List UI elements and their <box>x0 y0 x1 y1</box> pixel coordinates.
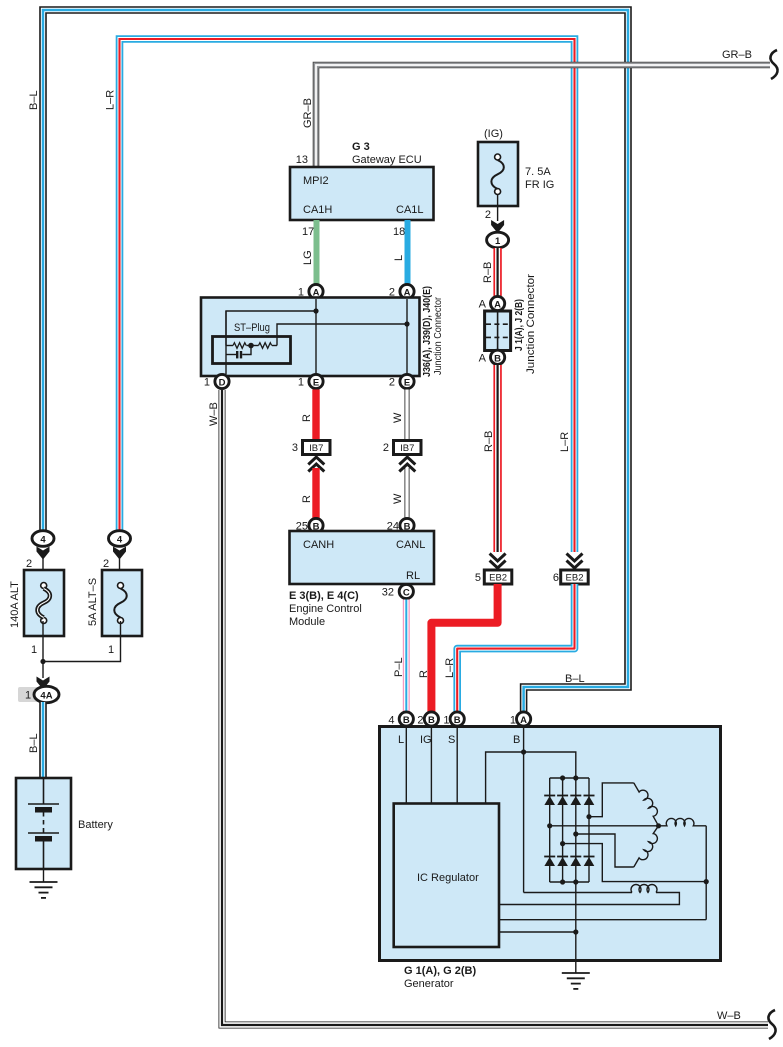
capacitor to left node <box>226 354 236 356</box>
node col3 to lower stator lead <box>573 831 578 836</box>
fuse 140A ALT symbol (heavy fusible link) <box>41 583 47 589</box>
svg-text:L–R: L–R <box>105 90 117 110</box>
wire L from CA1L to junction connector pin A2 <box>405 220 411 284</box>
ground wire vertical <box>575 882 577 973</box>
svg-text:B: B <box>428 715 435 726</box>
wire W from E2 to IB7 <box>405 390 410 442</box>
svg-text:E 3(B), E 4(C): E 3(B), E 4(C) <box>289 590 359 602</box>
svg-text:C: C <box>403 588 410 599</box>
svg-text:B: B <box>454 715 461 726</box>
Gateway ECU box G3 <box>290 167 434 220</box>
svg-text:R: R <box>418 670 430 678</box>
junction dot left column <box>40 659 45 664</box>
fuse FR IG box <box>478 142 518 206</box>
svg-text:1: 1 <box>25 690 31 702</box>
svg-text:4A: 4A <box>40 691 52 702</box>
wire battery to ground <box>43 869 45 882</box>
svg-text:17: 17 <box>302 226 314 238</box>
svg-text:A: A <box>479 299 487 311</box>
svg-text:B–L: B–L <box>28 733 40 753</box>
svg-text:CANL: CANL <box>396 539 425 551</box>
ground (battery) <box>30 882 58 898</box>
wire 5A pin1 down and left to junction node <box>43 621 121 662</box>
gray highlight band behind 4A <box>18 687 58 702</box>
wire B-L from 4A to battery <box>39 702 47 779</box>
junction dot on E2 vertical <box>404 321 409 326</box>
svg-text:A: A <box>479 352 487 364</box>
svg-text:B: B <box>513 734 520 746</box>
wire 140A pin1 down to junction <box>42 621 44 678</box>
svg-text:W–B: W–B <box>208 402 220 426</box>
stator winding lower (coil) <box>634 826 659 867</box>
svg-text:Engine Control: Engine Control <box>289 603 362 615</box>
wire W from IB7 to ECM pin 24 <box>405 468 410 518</box>
svg-text:4: 4 <box>40 535 46 546</box>
pin circle A2 <box>400 284 414 298</box>
wire L-R: left vertical, top run, down to EB2(6) <box>120 39 575 552</box>
arrow into fuse 5A <box>113 547 126 560</box>
svg-text:A: A <box>494 300 501 311</box>
stator mid rail from col1 to star point <box>547 823 552 828</box>
svg-text:1: 1 <box>443 715 449 727</box>
svg-text:J 1(A), J 2(B): J 1(A), J 2(B) <box>514 299 525 351</box>
svg-text:GR–B: GR–B <box>722 49 752 61</box>
svg-text:L: L <box>398 734 404 746</box>
svg-text:W: W <box>392 493 404 504</box>
svg-text:R: R <box>301 495 313 503</box>
junction connector J1/J2 box <box>485 311 511 351</box>
svg-text:IB7: IB7 <box>309 443 323 454</box>
resistor R left <box>233 343 246 349</box>
oval connector 4 (B-L into 140A ALT) <box>32 531 54 547</box>
oval connector 1 <box>487 232 509 248</box>
left node vertical down to pin D <box>225 311 227 374</box>
pin circle B (IG) <box>424 712 438 726</box>
svg-text:FR IG: FR IG <box>525 179 554 191</box>
svg-text:2: 2 <box>485 209 491 221</box>
svg-text:IC Regulator: IC Regulator <box>417 872 479 884</box>
center node dot <box>248 343 254 349</box>
resistor line across ST-plug <box>226 345 233 347</box>
oval connector 4 (L-R into 5A ALT-S) <box>109 531 131 547</box>
diode row 1 triangles <box>544 796 594 805</box>
svg-text:L–R: L–R <box>444 658 456 678</box>
svg-text:L–R: L–R <box>559 432 571 452</box>
internal wire A1-E1 <box>315 299 317 374</box>
svg-text:G 1(A), G 2(B): G 1(A), G 2(B) <box>404 965 476 977</box>
arrow into oval 1 <box>491 220 504 233</box>
svg-text:R–B: R–B <box>482 262 494 283</box>
wire W-B: from J36 pin D down and across bottom to off-page <box>222 390 768 1025</box>
svg-text:J36(A), J39(D), J40(E): J36(A), J39(D), J40(E) <box>422 286 433 377</box>
svg-text:GR–B: GR–B <box>302 98 314 128</box>
svg-text:5: 5 <box>475 572 481 584</box>
bridge column 2 <box>562 778 564 882</box>
right winding end down to junction <box>705 826 707 920</box>
IC Regulator box <box>394 804 499 948</box>
svg-text:6: 6 <box>553 572 559 584</box>
field winding line from B <box>524 892 632 894</box>
wire GR-B: from Gateway ECU pin 13 up and across to off-page right <box>316 65 770 167</box>
svg-text:EB2: EB2 <box>489 573 507 584</box>
star point dot <box>656 823 661 828</box>
wire L pin to IC regulator <box>405 727 407 804</box>
junction connector J36 box <box>201 298 420 377</box>
stator winding upper (coil) <box>634 783 659 826</box>
pin circle B (CANL) <box>400 518 414 532</box>
field winding coil <box>631 884 657 892</box>
fuse 140A ALT box <box>24 570 64 636</box>
svg-text:B: B <box>403 715 410 726</box>
chevron up IB7 left <box>308 457 324 472</box>
svg-text:Junction Connector: Junction Connector <box>525 274 537 374</box>
svg-text:1: 1 <box>298 377 304 389</box>
wire right down to IC regulator <box>499 919 706 921</box>
svg-text:Gateway ECU: Gateway ECU <box>352 154 422 166</box>
svg-text:LG: LG <box>302 250 314 265</box>
wire LG from CA1H to junction connector pin A1 <box>314 220 320 284</box>
pin circle B (S) <box>450 712 464 726</box>
wire into 140A fuse <box>42 556 44 585</box>
bridge column 1 <box>549 778 551 882</box>
internal wire A2-E2 <box>406 299 408 374</box>
generator box G1(A) G2(B) <box>380 727 721 961</box>
wire R from E1 to IB7 <box>312 390 319 442</box>
svg-text:2: 2 <box>103 558 109 570</box>
diode row 1 bars <box>544 795 594 797</box>
junction dot on E1 vertical <box>313 308 318 313</box>
wire B pin down to field line <box>523 727 525 893</box>
svg-text:Generator: Generator <box>404 978 454 990</box>
svg-text:Module: Module <box>289 616 325 628</box>
svg-text:(IG): (IG) <box>484 128 503 140</box>
svg-text:IB7: IB7 <box>400 443 414 454</box>
junction dot on B wire <box>521 749 526 754</box>
svg-text:RL: RL <box>406 570 420 582</box>
wire R from IB7 to ECM pin 25 <box>312 468 319 518</box>
wire R-B from oval 1 to J1 pin A <box>493 248 501 296</box>
svg-text:2: 2 <box>383 442 389 454</box>
svg-text:Battery: Battery <box>78 819 113 831</box>
chevron down into EB2(5) <box>490 554 506 569</box>
svg-text:R: R <box>301 414 313 422</box>
svg-text:D: D <box>219 378 226 389</box>
bridge column 3 <box>575 778 577 882</box>
junction dot on ground wire <box>573 929 578 934</box>
connector IB7 (CANL) <box>394 441 422 455</box>
bridge column 4 <box>588 778 590 882</box>
svg-text:W: W <box>392 412 404 423</box>
fuse FR IG symbol <box>495 154 501 160</box>
svg-text:1: 1 <box>510 715 516 727</box>
svg-text:4: 4 <box>117 535 123 546</box>
fuse 5A ALT-S symbol <box>118 583 124 589</box>
wire R-B from J2 pin B down to EB2(5) <box>493 365 501 552</box>
wire IG pin to IC regulator <box>430 727 432 804</box>
stator winding right (horizontal coil) <box>659 818 707 825</box>
chevron up IB7 right <box>399 457 415 472</box>
svg-text:ST–Plug: ST–Plug <box>234 322 270 334</box>
svg-text:R–B: R–B <box>483 431 495 452</box>
svg-text:1: 1 <box>108 644 114 656</box>
pin circle E1 <box>309 374 323 388</box>
svg-text:4: 4 <box>388 715 394 727</box>
svg-text:7. 5A: 7. 5A <box>525 166 551 178</box>
field coil to IC regulator <box>499 893 679 905</box>
IC regulator bottom line to ground wire <box>499 931 576 933</box>
svg-text:1: 1 <box>204 377 210 389</box>
wire into 5A fuse <box>119 556 121 585</box>
svg-text:EB2: EB2 <box>566 573 584 584</box>
svg-text:5A ALT–S: 5A ALT–S <box>87 578 99 626</box>
pin circle A (J1) <box>491 296 505 310</box>
svg-text:2: 2 <box>389 377 395 389</box>
wire P-L from ECM pin C to generator L pin <box>403 600 410 714</box>
svg-text:G 3: G 3 <box>352 141 370 153</box>
pin circle B (CANH) <box>309 518 323 532</box>
resistor R right <box>259 343 272 349</box>
wire B branch to bridge and IC regulator <box>486 752 576 804</box>
svg-text:32: 32 <box>382 587 394 599</box>
bridge top rail <box>550 777 589 779</box>
ground (generator) <box>562 973 590 989</box>
ECM box <box>290 531 435 584</box>
off-page connector squiggle GR-B <box>770 50 777 79</box>
pin circle A1 <box>309 284 323 298</box>
pin circle D <box>215 374 229 388</box>
pin circle A (B) <box>517 712 531 726</box>
svg-text:P–L: P–L <box>393 657 405 677</box>
off-page connector squiggle W-B <box>768 1010 775 1039</box>
internal wire node to E1 vertical <box>226 311 316 346</box>
node col2 route to right <box>560 841 565 846</box>
svg-text:L: L <box>393 255 405 261</box>
pin circle B (J2) <box>491 350 505 364</box>
battery box <box>16 778 71 869</box>
svg-text:13: 13 <box>296 154 308 166</box>
oval connector 4A <box>34 686 59 702</box>
svg-text:1: 1 <box>495 236 501 247</box>
wire B-L main loop: left vertical, top run, right vertical down to generator pin A <box>43 10 628 713</box>
J1/J2 grid center line <box>497 311 499 351</box>
internal wire right node to E2 vertical <box>277 324 407 346</box>
svg-text:MPI2: MPI2 <box>303 175 329 187</box>
arrow into fuse 140A <box>37 547 50 560</box>
J1/J2 dashed rows <box>486 323 509 325</box>
fuse 5A ALT-S box <box>102 570 142 636</box>
svg-text:1: 1 <box>31 644 37 656</box>
bottom rail dots <box>560 879 565 884</box>
svg-text:Junction Connector: Junction Connector <box>433 296 444 375</box>
diode row 2 triangles <box>544 857 594 866</box>
wire fuse to pin 2 <box>497 194 499 221</box>
svg-text:E: E <box>313 378 319 389</box>
wire R thick from EB2(5) to generator IG pin <box>431 584 497 713</box>
chevron down into EB2(6) <box>567 554 583 569</box>
svg-text:2: 2 <box>26 558 32 570</box>
svg-text:E: E <box>404 378 410 389</box>
svg-text:W–B: W–B <box>717 1010 741 1022</box>
ST-Plug box <box>213 337 291 364</box>
pin circle B (L) <box>399 712 413 726</box>
svg-text:S: S <box>448 734 455 746</box>
battery symbol <box>28 778 59 869</box>
capacitor plates <box>240 351 242 358</box>
svg-text:B–L: B–L <box>28 90 40 110</box>
arrow into 4A connector <box>37 677 50 690</box>
connector EB2(6) <box>561 570 589 584</box>
wire L-R from EB2(6) to generator S pin <box>457 584 574 713</box>
pin circle C (RL) <box>399 584 413 598</box>
junction dot right <box>704 879 709 884</box>
svg-text:140A ALT: 140A ALT <box>9 581 21 628</box>
svg-text:CA1L: CA1L <box>396 204 424 216</box>
pin circle E2 <box>400 374 414 388</box>
top rail dots <box>560 775 565 780</box>
bridge bottom rail <box>550 881 589 883</box>
connector IB7 (CANH) <box>303 441 331 455</box>
node col4 to upper stator lead <box>586 814 591 819</box>
svg-text:2: 2 <box>417 715 423 727</box>
diode row 2 bars <box>544 856 594 858</box>
wire S pin to IC regulator <box>456 727 458 804</box>
svg-text:B: B <box>494 353 501 364</box>
svg-text:18: 18 <box>393 226 405 238</box>
svg-text:CANH: CANH <box>303 539 334 551</box>
svg-text:CA1H: CA1H <box>303 204 332 216</box>
svg-text:B–L: B–L <box>565 673 585 685</box>
connector EB2(5) <box>484 570 512 584</box>
capacitor branch from center node <box>242 346 251 355</box>
svg-text:A: A <box>520 715 527 726</box>
svg-text:3: 3 <box>292 442 298 454</box>
svg-text:IG: IG <box>420 734 432 746</box>
